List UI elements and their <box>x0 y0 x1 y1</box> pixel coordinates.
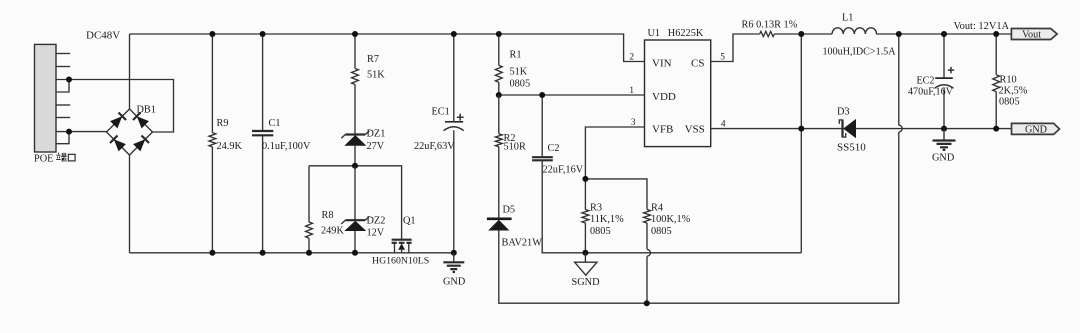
svg-text:CS: CS <box>691 58 704 70</box>
wire CS pin to R6 <box>711 34 760 62</box>
node junction EC2 bottom <box>941 126 947 132</box>
svg-text:GND: GND <box>1025 124 1047 135</box>
svg-text:0805: 0805 <box>651 226 672 237</box>
svg-text:12V: 12V <box>367 228 385 239</box>
svg-text:R7: R7 <box>367 54 379 65</box>
node junction C1 bottom <box>260 250 266 256</box>
svg-text:EC2: EC2 <box>917 76 935 87</box>
svg-text:POE: POE <box>34 154 53 165</box>
wire VFB net (pin 3 to divider node) <box>585 127 644 179</box>
svg-text:0.1uF,100V: 0.1uF,100V <box>262 141 311 152</box>
bridge rectifier DB1 <box>107 109 153 155</box>
svg-text:5: 5 <box>720 53 725 63</box>
svg-text:R10: R10 <box>1000 75 1017 86</box>
wire gate node <box>309 166 402 240</box>
svg-text:Vout: Vout <box>1022 30 1041 41</box>
svg-text:0805: 0805 <box>590 226 611 237</box>
resistor R9 <box>211 34 213 253</box>
svg-text:BAV21W: BAV21W <box>502 238 543 249</box>
node junction R1 bottom / VDD <box>496 92 502 98</box>
op-amp U1 box <box>645 40 711 147</box>
capacitor EC1 <box>453 34 455 253</box>
resistor R1 <box>498 34 500 95</box>
node junction R3 bottom / SGND <box>582 250 588 256</box>
wire output sense vertical with hop over ground wire <box>898 34 900 303</box>
svg-text:Q1: Q1 <box>403 216 416 227</box>
svg-text:DZ1: DZ1 <box>367 129 386 140</box>
svg-text:EC1: EC1 <box>432 107 450 118</box>
node junction R4 bottom <box>644 300 650 306</box>
svg-text:0805: 0805 <box>999 97 1020 108</box>
node junction R10 bottom <box>993 126 999 132</box>
svg-text:22uF,16V: 22uF,16V <box>543 165 584 176</box>
svg-text:22uF,63V: 22uF,63V <box>414 141 455 152</box>
ground SGND <box>584 253 586 262</box>
label EC2 plus <box>948 67 954 73</box>
svg-text:51K: 51K <box>367 70 385 81</box>
svg-text:0805: 0805 <box>510 79 531 90</box>
node junction L1 output <box>896 31 902 37</box>
svg-text:R1: R1 <box>510 50 522 61</box>
svg-text:51K: 51K <box>510 67 528 78</box>
svg-text:C1: C1 <box>269 118 281 129</box>
resistor R2 <box>498 95 500 219</box>
wire L1 to Vout rail <box>876 33 1011 35</box>
svg-text:GND: GND <box>443 277 466 288</box>
svg-text:4: 4 <box>721 120 726 130</box>
svg-text:24.9K: 24.9K <box>217 141 243 152</box>
svg-text:R3: R3 <box>590 203 602 214</box>
node junction EC2 top <box>941 31 947 37</box>
resistor R6 <box>760 31 775 36</box>
svg-text:Vout: 12V1A: Vout: 12V1A <box>954 21 1010 32</box>
resistor R8 <box>308 166 310 253</box>
connector Vout <box>1011 29 1057 40</box>
node junction VSS/switch <box>798 126 804 132</box>
svg-text:27V: 27V <box>367 141 385 152</box>
transistor Q1 <box>392 239 412 241</box>
wire divider node to R4 top <box>585 179 647 210</box>
wire POE pin to bridge AC right (crossover) <box>56 80 174 133</box>
node junction R8 bottom <box>306 250 312 256</box>
svg-text:SS510: SS510 <box>837 142 866 154</box>
wire bottom-left return rail <box>130 252 454 254</box>
svg-text:VSS: VSS <box>685 124 705 136</box>
label EC1 plus <box>457 114 464 121</box>
ground GND (output) <box>943 129 945 141</box>
svg-text:510R: 510R <box>504 142 526 153</box>
svg-text:2K,5%: 2K,5% <box>999 86 1028 97</box>
capacitor C2 <box>541 95 543 157</box>
node junction EC1 bottom <box>451 250 457 256</box>
zener diode DZ1 <box>345 133 365 135</box>
wire switch node vertical (R6/L1 junction down to SGND wire) <box>800 34 802 253</box>
wire hop of output sense over ground net <box>899 125 902 132</box>
wire R3 top lead <box>584 179 586 210</box>
wire R4 bottom lead <box>646 223 648 303</box>
resistor R7 <box>354 34 356 135</box>
diode D3 <box>841 120 843 138</box>
node junction R1 top <box>496 31 502 37</box>
svg-text:249K: 249K <box>321 226 344 237</box>
svg-text:1: 1 <box>629 86 634 96</box>
node junction DZ2 bottom <box>352 250 358 256</box>
svg-text:11K,1%: 11K,1% <box>590 214 624 225</box>
svg-text:SGND: SGND <box>572 277 601 288</box>
capacitor EC2 <box>943 34 945 129</box>
svg-text:3: 3 <box>631 118 636 128</box>
wire R6 to switch node <box>774 33 832 35</box>
wire VDD net (R1 bottom to pin 1) <box>499 94 645 96</box>
svg-text:2: 2 <box>629 53 634 63</box>
wire R3 bottom lead <box>584 223 586 253</box>
resistor R4 <box>644 210 651 224</box>
node junction C2 top <box>539 92 545 98</box>
wire hop of R4 lead over SGND wire <box>647 249 650 256</box>
node junction R9 top <box>209 31 215 37</box>
node junction POE pin 7 <box>66 129 72 135</box>
diode D5 <box>487 218 512 221</box>
svg-text:VFB: VFB <box>652 124 673 136</box>
svg-text:VIN: VIN <box>652 58 672 70</box>
node junction EC1 top <box>451 31 457 37</box>
svg-text:C2: C2 <box>548 143 560 154</box>
wire 48V top rail <box>130 34 645 62</box>
wire feedback rail from D5 anode to output <box>499 231 899 304</box>
svg-text:VDD: VDD <box>652 91 676 103</box>
node junction switch node <box>798 31 804 37</box>
svg-text:DZ2: DZ2 <box>367 216 386 227</box>
svg-text:R4: R4 <box>651 203 663 214</box>
zener diode DZ2 <box>354 166 356 220</box>
node junction gate node / DZ1 <box>352 163 358 169</box>
wire SGND net (C2 bottom run) <box>542 160 801 253</box>
svg-text:L1: L1 <box>842 13 853 24</box>
connector GND output <box>1012 123 1060 134</box>
svg-text:100K,1%: 100K,1% <box>651 214 691 225</box>
node junction R10 top <box>993 31 999 37</box>
svg-text:HG160N10LS: HG160N10LS <box>372 255 429 266</box>
node junction R7 top <box>352 31 358 37</box>
wire VSS pin to ground net <box>711 128 1012 130</box>
svg-text:U1 H6225K: U1 H6225K <box>648 28 704 39</box>
capacitor C1 <box>262 34 264 253</box>
node junction POE pin 3 <box>66 77 72 83</box>
svg-text:DC48V: DC48V <box>86 30 120 42</box>
svg-text:DB1: DB1 <box>137 105 156 116</box>
svg-text:R6 0.13R 1%: R6 0.13R 1% <box>742 20 798 31</box>
svg-text:GND: GND <box>932 153 955 164</box>
wire POE pin to bridge AC left <box>56 131 107 133</box>
resistor R10 <box>995 34 997 129</box>
ground GND (input return) <box>453 253 455 262</box>
inductor L1 <box>832 28 876 34</box>
svg-text:R8: R8 <box>322 210 334 221</box>
svg-text:D3: D3 <box>837 107 850 118</box>
node junction R9 bottom <box>209 250 215 256</box>
node junction VFB divider <box>582 176 588 182</box>
resistor R3 <box>582 210 589 224</box>
svg-text:470uF,16V: 470uF,16V <box>908 87 954 98</box>
node junction C1 top <box>260 31 266 37</box>
svg-text:R9: R9 <box>217 118 229 129</box>
svg-text:D5: D5 <box>503 205 516 216</box>
svg-text:100uH,IDC>1.5A: 100uH,IDC>1.5A <box>823 47 897 58</box>
connector POE port <box>35 44 57 152</box>
